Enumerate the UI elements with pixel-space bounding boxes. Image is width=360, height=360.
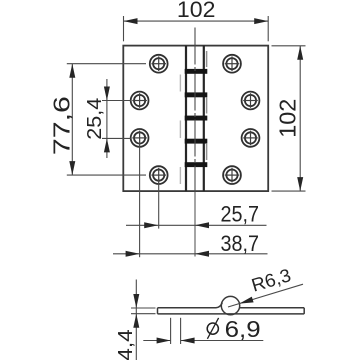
svg-text:25,7: 25,7 bbox=[221, 201, 260, 226]
svg-text:102: 102 bbox=[177, 0, 216, 22]
svg-text:4,4: 4,4 bbox=[114, 329, 137, 360]
svg-text:6,9: 6,9 bbox=[225, 316, 261, 342]
svg-text:77,6: 77,6 bbox=[48, 96, 74, 155]
svg-text:38,7: 38,7 bbox=[221, 231, 260, 256]
svg-text:102: 102 bbox=[274, 99, 300, 138]
svg-text:25,4: 25,4 bbox=[83, 98, 106, 140]
